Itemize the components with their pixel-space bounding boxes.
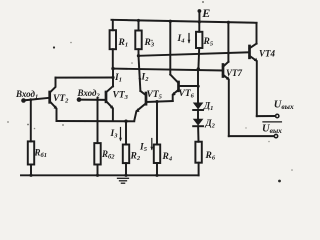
wire node R3 to VT4 base xyxy=(137,52,250,57)
svg-text:Вход1: Вход1 xyxy=(15,89,38,101)
svg-text:VT2: VT2 xyxy=(53,94,69,105)
transistor VT2 xyxy=(50,78,69,121)
label current I3 xyxy=(110,128,122,142)
wire R3 node down to VT5 collector xyxy=(139,56,141,91)
transistor VT3 xyxy=(106,86,129,121)
wire output lower / node Uout inverted xyxy=(229,122,282,138)
junction dot chain x=198 xyxy=(197,67,200,70)
svg-text:Rб2: Rб2 xyxy=(101,149,115,161)
label current I5 xyxy=(139,139,153,154)
wire R1 node down to input collectors xyxy=(111,69,114,87)
diode D1 xyxy=(193,101,214,119)
resistor R1 xyxy=(110,20,128,69)
label current I1 xyxy=(112,73,122,84)
svg-text:I4: I4 xyxy=(177,34,186,45)
wire emitter bus xyxy=(57,120,135,122)
transistor VT4 xyxy=(250,23,276,116)
wire node R1 to VT7 base xyxy=(111,67,223,71)
svg-text:R6: R6 xyxy=(205,151,216,162)
svg-text:R2: R2 xyxy=(130,152,141,163)
wire reference chain down xyxy=(197,69,199,103)
resistor R2 xyxy=(123,121,141,175)
junction R2 on bus xyxy=(124,120,127,123)
svg-text:R1: R1 xyxy=(118,38,129,49)
wire VT5 base / VT6 emitter xyxy=(146,101,173,102)
svg-text:R4: R4 xyxy=(162,152,173,163)
resistor Rb2 xyxy=(94,98,115,175)
svg-text:I2: I2 xyxy=(141,73,150,84)
svg-text:VT6: VT6 xyxy=(179,89,195,100)
node E terminal xyxy=(198,6,211,22)
transistor VT6 xyxy=(169,20,200,101)
ground xyxy=(118,178,129,183)
svg-text:R5: R5 xyxy=(203,37,214,48)
wire VT2 collector xyxy=(56,77,114,79)
svg-text:VT7: VT7 xyxy=(226,68,243,78)
svg-text:Д1: Д1 xyxy=(203,101,213,113)
diode D2 xyxy=(193,118,216,142)
svg-text:Uвых: Uвых xyxy=(262,123,282,135)
resistor Rb1 xyxy=(28,100,47,176)
scan noise specks xyxy=(7,1,293,182)
resistor R5 xyxy=(196,20,214,69)
svg-text:E: E xyxy=(201,6,210,20)
node input 1 xyxy=(15,89,50,103)
label current I2 xyxy=(139,73,150,84)
resistor R3 xyxy=(135,19,155,56)
svg-text:I1: I1 xyxy=(114,73,122,84)
svg-text:R3: R3 xyxy=(144,38,155,49)
svg-text:VT5: VT5 xyxy=(147,90,163,101)
resistor R6 xyxy=(195,142,215,176)
svg-text:Uвых: Uвых xyxy=(274,100,294,112)
wire top +E rail xyxy=(112,20,257,23)
svg-text:VT4: VT4 xyxy=(259,49,276,59)
resistor R4 xyxy=(154,102,173,176)
svg-text:I3: I3 xyxy=(110,129,119,140)
node input 2 xyxy=(77,88,107,102)
wire ground rail xyxy=(21,174,199,176)
svg-text:VT3: VT3 xyxy=(113,91,129,102)
label current I4 xyxy=(177,34,191,45)
svg-text:Д2: Д2 xyxy=(205,118,216,130)
wire output upper / node Uout xyxy=(257,100,294,118)
transistor VT5 xyxy=(134,90,162,121)
transistor VT7 xyxy=(223,21,243,136)
junction dots on ground rail xyxy=(29,174,32,177)
svg-text:I5: I5 xyxy=(139,143,148,154)
svg-text:Rб1: Rб1 xyxy=(34,148,48,160)
junction R4 xyxy=(155,100,158,103)
